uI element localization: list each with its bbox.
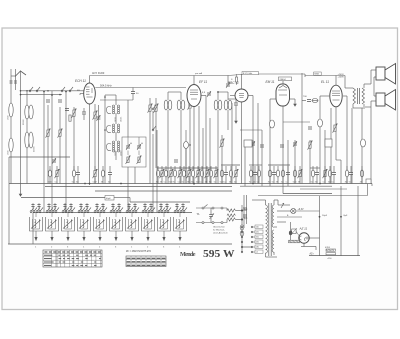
wire [309, 237, 319, 239]
selector contact [251, 241, 253, 243]
wire [152, 111, 154, 130]
selector contact [251, 236, 253, 238]
wire [114, 197, 130, 199]
wire [205, 100, 207, 184]
svg-text:595 W: 595 W [203, 248, 235, 260]
selector contact [241, 241, 243, 243]
wire [8, 157, 10, 244]
wire [249, 164, 262, 166]
switch contact [174, 211, 176, 213]
coil L6 [29, 132, 33, 148]
wire [118, 203, 120, 213]
selector contact [251, 251, 253, 253]
wire [21, 197, 110, 199]
junction [59, 94, 61, 96]
svg-text:ZF = 468/472/1875 kHz: ZF = 468/472/1875 kHz [126, 250, 152, 253]
switch contact [29, 90, 31, 92]
band coil loop 10 [174, 217, 187, 231]
capacitor C16 [209, 214, 213, 216]
wire [90, 75, 228, 77]
antenna [15, 71, 26, 77]
wire [128, 203, 130, 213]
wire [371, 184, 373, 187]
band coil loop 6 [110, 217, 123, 231]
wire [371, 100, 376, 102]
wire [209, 118, 211, 184]
switch contact [84, 211, 86, 213]
wire [15, 69, 17, 76]
capacitor Cr39 [332, 172, 336, 174]
selector contact [241, 246, 243, 248]
resistor R14 [236, 77, 238, 82]
capacitor [181, 204, 184, 206]
svg-text:8µF: 8µF [344, 215, 348, 217]
svg-text:16µF: 16µF [322, 215, 328, 217]
resistor Rr24 [235, 171, 237, 177]
wire [134, 203, 136, 213]
band coil loop 5 [94, 217, 107, 231]
wire [370, 107, 372, 184]
wire [73, 107, 75, 184]
svg-text:60pF: 60pF [106, 198, 111, 200]
resistor Rr10 [170, 171, 172, 177]
capacitor C15 [307, 99, 311, 101]
capacitor C7 [131, 91, 135, 93]
switch contact [135, 211, 137, 213]
wire [340, 186, 342, 256]
wire [324, 130, 326, 184]
wire [241, 74, 243, 89]
ground [20, 190, 22, 195]
capacitor Cr29 [272, 172, 276, 174]
wire [287, 140, 289, 187]
junction [319, 183, 321, 185]
speaker LS2 [376, 93, 385, 106]
switch contact [152, 108, 154, 110]
wire [54, 203, 56, 213]
resistor R6 [94, 112, 96, 118]
switch contact [100, 211, 102, 213]
capacitor Cr40 [345, 170, 348, 177]
capacitor Cr38 [328, 170, 331, 177]
wire [32, 203, 34, 213]
oval component [240, 225, 244, 230]
wire [38, 203, 40, 213]
selector contact [251, 226, 253, 228]
rect component [325, 139, 332, 147]
wire [265, 253, 267, 257]
resistor R10 [292, 229, 296, 234]
capacitor [101, 204, 104, 206]
switch contact [36, 211, 38, 213]
wire [80, 93, 84, 95]
wire [185, 149, 187, 184]
junction [20, 90, 22, 92]
capacitor C9 [82, 111, 86, 113]
capacitor Cr3 [76, 172, 80, 174]
resistor Rr34 [299, 171, 301, 177]
switch contact [62, 211, 64, 213]
resistor R4c [138, 157, 140, 163]
switch contact [69, 90, 71, 92]
resistor Rr20 [215, 171, 217, 177]
wire [227, 92, 229, 100]
ground [35, 231, 37, 238]
svg-text:504,5 kHz: 504,5 kHz [100, 84, 112, 88]
switch contact [158, 211, 160, 213]
jack [202, 207, 204, 209]
wire [196, 222, 227, 224]
svg-text:ANT. KURZ: ANT. KURZ [92, 72, 105, 75]
selector contact [241, 231, 243, 233]
wire [95, 190, 232, 192]
resistor R9 zigzag [227, 218, 235, 221]
wire [80, 203, 82, 213]
capacitor C23 [260, 144, 264, 146]
wire [343, 95, 347, 97]
wire [131, 213, 133, 218]
output transformer secondary [362, 88, 365, 104]
wire [305, 75, 345, 77]
resistor Rr18 [206, 171, 208, 177]
capacitor Cr23 [229, 170, 232, 177]
wire [282, 122, 284, 194]
junction [43, 91, 45, 93]
capacitor C8 [65, 108, 69, 110]
capacitor Cr41 [349, 172, 353, 174]
wire [144, 203, 146, 213]
selector contact [251, 246, 253, 248]
trimmer C7c [137, 145, 141, 147]
wire [268, 164, 290, 166]
wire [179, 213, 181, 218]
capacitor Cr42 [360, 170, 363, 177]
capacitor [85, 204, 88, 206]
wire [243, 195, 245, 228]
wire [43, 91, 45, 213]
wire [277, 200, 279, 205]
wire [100, 99, 133, 101]
wire [274, 226, 277, 228]
junction [47, 90, 49, 92]
wire [96, 203, 98, 213]
trimmer C5 [52, 159, 56, 161]
wire [51, 91, 53, 213]
resistor Rr14 [188, 171, 190, 177]
capacitor Cr30 [276, 170, 279, 177]
capacitor Cr13 [182, 170, 185, 177]
wire [127, 100, 129, 137]
resistor R3 [59, 130, 61, 136]
switch contact [145, 211, 147, 213]
svg-text:EF 11: EF 11 [199, 80, 207, 84]
capacitor Cr0 [48, 170, 51, 177]
trimmer C22 [293, 142, 297, 144]
switch contact [126, 211, 128, 213]
svg-text:28604: 28604 [280, 79, 287, 81]
wire [130, 201, 190, 203]
capacitor Cr21 [220, 170, 223, 177]
wire [253, 241, 255, 243]
oval component [240, 231, 244, 236]
junction [104, 96, 106, 98]
switch contact [97, 211, 99, 213]
resistor Rr12 [179, 171, 181, 177]
junction [104, 129, 106, 131]
trimmer C6 [96, 116, 100, 118]
svg-text:4353: 4353 [325, 247, 331, 249]
mains transformer primary [266, 205, 268, 253]
coil L1 [9, 103, 13, 117]
trimmer arrow [210, 214, 215, 220]
capacitor Cr31 [281, 170, 284, 177]
junction [51, 94, 53, 96]
wire [363, 84, 365, 88]
trimmer box [122, 137, 146, 167]
wire [374, 76, 376, 78]
svg-text:AZ 11: AZ 11 [299, 226, 308, 230]
tube ECH11 [84, 83, 96, 104]
ground [51, 231, 53, 238]
wire [35, 213, 37, 218]
IF coil T3b [224, 100, 228, 110]
osc coil pair 3 [112, 141, 114, 143]
wire [277, 210, 291, 212]
wire [304, 74, 306, 77]
wire [176, 203, 178, 213]
wire [273, 200, 275, 205]
wire [89, 76, 91, 84]
capacitor [31, 204, 34, 206]
wire [160, 203, 162, 213]
wire [253, 226, 255, 228]
wire [163, 213, 165, 218]
wire [363, 104, 365, 107]
wire [302, 100, 306, 102]
wire [26, 119, 28, 132]
wire [157, 167, 218, 169]
tube EM11 electrodes [278, 89, 287, 91]
capacitor C1 [10, 80, 13, 82]
capacitor Cr36 [315, 172, 319, 174]
wire [227, 75, 242, 76]
wire [248, 95, 253, 97]
selector link [242, 246, 252, 248]
wire [301, 73, 303, 101]
svg-text:20000: 20000 [23, 119, 25, 125]
junction [193, 183, 195, 185]
core [268, 203, 270, 256]
pilot lamp [291, 208, 296, 213]
svg-text:20000: 20000 [34, 146, 36, 152]
band coil loop 4 [78, 217, 91, 231]
wire [330, 108, 332, 184]
wire [230, 95, 235, 97]
svg-text:Mende: Mende [180, 251, 196, 258]
svg-text:220: 220 [256, 242, 259, 244]
wire [59, 107, 61, 184]
capacitor [63, 204, 66, 206]
bus wire [240, 185, 332, 187]
wire [235, 99, 237, 103]
wire [310, 167, 320, 169]
capacitor Cr19 [209, 170, 212, 177]
capacitor Cr15 [191, 170, 194, 177]
svg-text:40: 40 [130, 143, 132, 145]
wire [147, 213, 149, 218]
wire [21, 94, 63, 96]
wire [105, 94, 116, 96]
wire [26, 148, 28, 184]
coupling hook [106, 126, 111, 133]
ground [115, 231, 117, 238]
tube EBC11 electrodes [239, 93, 244, 95]
selector contact [251, 231, 253, 233]
wire [273, 252, 275, 255]
wire [196, 207, 227, 209]
switch contact [103, 211, 105, 213]
wire [156, 130, 158, 213]
capacitor C17 [243, 207, 247, 209]
jack [212, 222, 214, 224]
bus wire [45, 186, 232, 188]
capacitor [149, 204, 152, 206]
wire [201, 95, 206, 97]
capacitor Cr17 [200, 170, 203, 177]
switch contact [87, 211, 89, 213]
switch contact [71, 211, 73, 213]
wire [64, 203, 66, 213]
wire [127, 167, 129, 213]
oval component [361, 139, 366, 147]
osc coil pair 1 [112, 105, 114, 107]
switch contact [177, 211, 179, 213]
end box [366, 179, 371, 184]
wire [236, 219, 243, 221]
bus wire [9, 183, 372, 185]
tube EF11 [187, 85, 201, 107]
core [357, 88, 359, 104]
tube EF11 electrodes [190, 89, 198, 91]
capacitor [47, 204, 50, 206]
junction [252, 183, 254, 185]
tube EL11 electrodes [332, 90, 340, 92]
speaker LS1 [376, 67, 385, 80]
wire [282, 81, 284, 85]
junction [340, 216, 342, 218]
wire [168, 91, 181, 93]
svg-text:ECH 11: ECH 11 [75, 79, 86, 83]
rect component [244, 140, 252, 147]
wire [193, 76, 195, 85]
wire [102, 203, 104, 213]
resistor R2 [47, 130, 49, 136]
wire [283, 193, 332, 195]
oval [312, 99, 318, 103]
tap label box [255, 245, 263, 248]
wire [258, 73, 305, 75]
resistor R4 [149, 105, 151, 111]
wire [155, 98, 157, 105]
coil L3 [25, 105, 29, 119]
oval component [318, 119, 323, 127]
capacitor [111, 204, 114, 206]
band coil loop 2 [46, 217, 59, 231]
ground [131, 231, 133, 238]
wire [89, 104, 91, 185]
wire [335, 76, 337, 86]
tube AZ11 electrodes [300, 236, 302, 240]
coil L2 [9, 138, 13, 152]
wire [10, 69, 12, 184]
jack [212, 207, 214, 209]
wire [253, 236, 255, 238]
wire [290, 222, 292, 241]
wire [51, 213, 53, 218]
svg-text:150: 150 [256, 237, 259, 239]
wire [257, 103, 259, 184]
wire [198, 106, 200, 184]
wire [309, 140, 311, 184]
wire [296, 210, 320, 212]
jack [221, 222, 223, 224]
capacitor Cr2 [72, 170, 75, 177]
wire [277, 216, 302, 218]
ground [294, 100, 296, 105]
tap label box [255, 250, 263, 253]
capacitor C24 [280, 144, 284, 146]
label box 28604 [279, 77, 292, 81]
resistor Rr4 [94, 171, 96, 177]
wire [253, 231, 255, 233]
band coil loop 8 [142, 217, 155, 231]
mains transformer secondary 2 [272, 230, 274, 252]
wire [222, 208, 227, 211]
tube EBC11 [235, 89, 248, 102]
trimmer C7b [126, 145, 130, 147]
switch contact [129, 211, 131, 213]
ground [67, 231, 69, 238]
switch contact [183, 211, 185, 213]
trimmer C13 [207, 92, 211, 94]
choke zigzag [227, 214, 235, 217]
switch contact [167, 211, 169, 213]
wire [261, 130, 263, 187]
capacitor [79, 204, 82, 206]
svg-text:B 97,3 kHz: B 97,3 kHz [243, 73, 252, 75]
band coil loop 9 [158, 217, 171, 231]
switch contact [55, 211, 57, 213]
capacitor C18 [243, 214, 247, 216]
capacitor [175, 204, 178, 206]
switch contact [151, 211, 153, 213]
tap label box [255, 225, 263, 228]
capacitor Cr26 [253, 172, 257, 174]
wire [367, 184, 369, 196]
switch contact [152, 129, 154, 131]
tube ECH11 electrodes [86, 86, 90, 88]
svg-text:+6,3V: +6,3V [298, 209, 305, 211]
switch contact [132, 211, 134, 213]
svg-text:125: 125 [256, 232, 259, 234]
junction [319, 216, 321, 218]
junction [217, 91, 219, 93]
capacitor [95, 204, 98, 206]
switch contact [119, 211, 121, 213]
svg-text:Gleichrichter: Gleichrichter [213, 226, 225, 229]
wire [21, 90, 84, 92]
capacitor [159, 204, 162, 206]
